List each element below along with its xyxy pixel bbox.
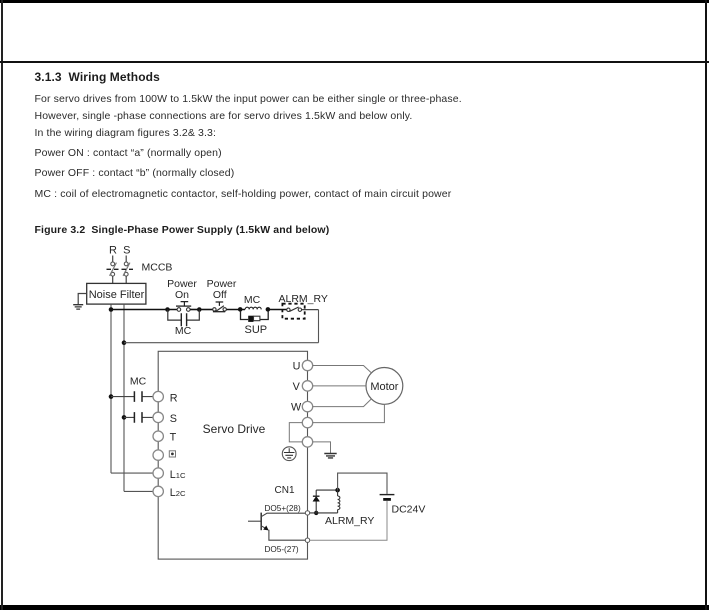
noise filter box: [87, 283, 146, 304]
label DO5+(28): [265, 504, 301, 513]
relay coil ALRM_RY: [338, 490, 340, 513]
svg-text:V: V: [293, 381, 301, 393]
svg-text:DC24V: DC24V: [392, 504, 426, 516]
svg-text:MCCB: MCCB: [142, 262, 173, 274]
svg-text:Off: Off: [213, 289, 227, 301]
ground (noise filter): [73, 294, 87, 310]
svg-text:R: R: [170, 392, 178, 404]
wire R to MCCB: [112, 256, 114, 263]
MCCB mechanical link (dashed): [107, 268, 134, 270]
svg-text:R: R: [109, 245, 117, 257]
contact MC main pole R: [111, 391, 153, 402]
transistor Q1 (open collector output): [248, 513, 305, 541]
svg-text:Noise Filter: Noise Filter: [89, 289, 145, 301]
node junction R branch: [109, 394, 114, 399]
battery DC24V: [380, 495, 395, 500]
coil MC: [245, 307, 261, 309]
terminal R: [153, 391, 178, 404]
suppressor SUP (parallel with MC coil): [241, 311, 269, 322]
wire control rail to PowerOn: [111, 309, 177, 311]
wire W to motor: [313, 399, 372, 407]
wire to L2C: [124, 490, 153, 492]
motor M1: [366, 368, 403, 405]
heading: [35, 70, 160, 84]
label Power On: [167, 278, 197, 301]
node junction rail1: [109, 307, 114, 312]
symbol PE circle: [282, 447, 296, 461]
terminal L2C: [153, 486, 186, 499]
svg-text:W: W: [291, 402, 302, 414]
wire S to MCCB: [125, 256, 127, 263]
wire filter output 1 (vertical x=111): [110, 304, 112, 473]
label ALRM_RY (coil): [325, 515, 374, 527]
svg-text:S: S: [170, 413, 177, 425]
label DC24V: [392, 504, 426, 516]
terminal ground (square-dot): [153, 450, 176, 460]
svg-text:T: T: [170, 432, 177, 444]
terminal T: [153, 431, 177, 444]
svg-text:DO5+(28): DO5+(28): [265, 504, 301, 513]
node junction coil top: [335, 488, 340, 493]
wire bottom control rail: [124, 342, 319, 344]
label MC (coil): [244, 294, 261, 306]
wire MCCB pole1 to filter: [112, 276, 114, 283]
node junction S branch: [122, 415, 127, 420]
wire MCCB pole2 to filter: [125, 276, 127, 283]
svg-text:U: U: [293, 361, 301, 373]
breaker MCCB pole 2: [123, 262, 130, 276]
svg-text:2C: 2C: [176, 489, 186, 498]
svg-text:On: On: [175, 289, 189, 301]
terminal V: [293, 381, 313, 393]
svg-text:CN1: CN1: [275, 485, 295, 496]
label DO5-(27): [265, 545, 299, 554]
svg-text:S: S: [123, 245, 130, 257]
node junction MC coil right: [266, 307, 271, 312]
contact MC main pole S: [124, 412, 153, 423]
wire coil top to battery: [338, 473, 387, 494]
svg-text:Power: Power: [207, 278, 237, 290]
wire coil bottom to DO5+: [310, 512, 338, 514]
wire PowerOff to MC coil: [227, 309, 245, 311]
label MC (main contacts): [130, 375, 147, 387]
label ALRM_RY (contact): [279, 293, 328, 305]
terminal U: [293, 360, 313, 372]
wire motor ground: [313, 404, 385, 422]
node S (phase S label): [123, 245, 130, 257]
page frame: [0, 0, 709, 3]
svg-text:Power: Power: [167, 278, 197, 290]
wire MC coil to ALRM_RY contact: [270, 309, 287, 311]
pushbutton Power On (NO): [165, 302, 201, 312]
terminal S: [153, 412, 177, 425]
terminal W: [291, 401, 313, 413]
node R (phase R label): [109, 245, 117, 257]
figure caption: [35, 224, 330, 236]
paragraph: [35, 93, 462, 105]
servo drive box: [158, 351, 307, 559]
ground (drive PE): [313, 442, 337, 458]
svg-text:MC: MC: [175, 325, 192, 337]
pushbutton Power Off (NC): [213, 302, 227, 312]
breaker MCCB pole 1: [110, 262, 117, 276]
terminal ground 1 (right): [302, 417, 312, 427]
label MC (aux contact): [175, 325, 192, 337]
node junction MC coil left: [238, 307, 243, 312]
label SUP: [244, 324, 267, 336]
svg-text:MC: MC: [244, 294, 261, 306]
svg-text:DO5-(27): DO5-(27): [265, 545, 299, 554]
wire filter output 2 (vertical x=124): [123, 304, 125, 491]
svg-text:MC: MC: [130, 375, 147, 387]
terminal ground 2 (right): [302, 437, 312, 447]
terminal DO5-(27): [305, 538, 309, 542]
svg-text:Motor: Motor: [370, 381, 398, 393]
wire right drop to bottom rail: [318, 310, 320, 343]
node junction rail2: [122, 340, 127, 345]
label MCCB: [142, 262, 173, 274]
terminal DO5+(28): [305, 511, 309, 515]
svg-text:1C: 1C: [176, 471, 186, 480]
wire V to motor: [313, 385, 366, 387]
wire diode top to coil top: [316, 489, 337, 491]
svg-text:SUP: SUP: [244, 324, 267, 336]
label CN1: [275, 485, 295, 496]
wire battery to DO5-: [310, 501, 387, 540]
wire U to motor: [313, 366, 372, 373]
svg-text:Servo Drive: Servo Drive: [203, 422, 266, 436]
contact MC auxiliary (parallel with Power On): [168, 310, 200, 327]
wire PowerOn to PowerOff: [202, 309, 213, 311]
terminal L1C: [153, 468, 186, 481]
node junction diode bottom: [314, 511, 318, 515]
label Power Off: [207, 278, 237, 301]
svg-text:ALRM_RY: ALRM_RY: [325, 515, 374, 527]
wire jumper ground terminals: [289, 423, 302, 442]
relay contact ALRM_RY (NC, dashed enclosure): [282, 304, 304, 319]
wire ALRM_RY contact to right drop: [302, 309, 319, 311]
diode D1: [313, 490, 320, 513]
wire to L1C: [111, 472, 153, 474]
